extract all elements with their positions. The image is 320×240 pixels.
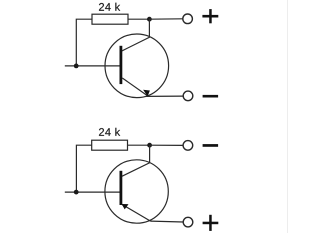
terminal: top output (+) (183, 14, 193, 24)
polarity label - (203, 144, 219, 147)
wire: R2 right to collector node (128, 144, 150, 146)
wire: base lead from left to Q2 base bar (65, 191, 120, 193)
wire: emitter to - terminal (146, 95, 183, 97)
label R2 value 24 k (99, 128, 120, 136)
label R1 value 24 k (99, 3, 120, 11)
wire: emitter to + terminal (151, 220, 184, 223)
node: collector junction (147, 143, 152, 148)
wire: collector node to + terminal (149, 18, 183, 20)
node: base junction (74, 190, 79, 195)
wire: collector node to - terminal (150, 144, 184, 146)
node: collector junction (147, 17, 152, 22)
wire: base node up and across to R2 left (76, 145, 91, 192)
node: base junction (74, 64, 79, 69)
faint page edge line (287, 0, 289, 233)
transistor Q1 (NPN) (105, 19, 169, 97)
terminal: bottom output (-) (183, 91, 193, 101)
polarity label + (202, 9, 218, 23)
terminal: bottom output (+) (183, 217, 193, 227)
wire: base node up and across to R1 left (76, 19, 92, 66)
resistor R1 (92, 14, 128, 24)
terminal: top output (-) (183, 141, 193, 151)
wire: R1 right to collector node (128, 18, 149, 20)
polarity label + (203, 215, 219, 231)
transistor Q2 (PNP) (105, 145, 168, 223)
wire: base lead from left to Q1 base bar (65, 65, 120, 67)
polarity label - (203, 95, 219, 98)
resistor R2 (92, 140, 128, 150)
